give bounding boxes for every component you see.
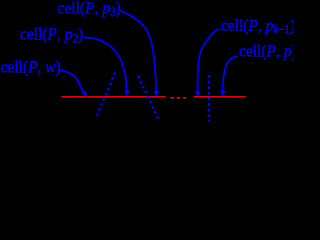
arrow e from cell(P,p): [223, 57, 238, 92]
dotted line D1: [96, 72, 115, 118]
arrow c from cell(P,p3): [120, 10, 156, 92]
arrow d from cell(P,p_{k-1}): [198, 29, 219, 92]
red dots ...: [171, 97, 188, 99]
arrow a from cell(P,w): [59, 70, 85, 93]
svg-text:cell(P, w): cell(P, w): [1, 56, 61, 76]
svg-text:cell(P, p): cell(P, p): [239, 41, 293, 61]
arrow b from cell(P,p2): [83, 37, 127, 92]
dotted line D2: [138, 76, 160, 122]
red line segment B: [194, 96, 246, 98]
dotted line D3: [208, 75, 210, 122]
red line segment A: [61, 96, 165, 98]
